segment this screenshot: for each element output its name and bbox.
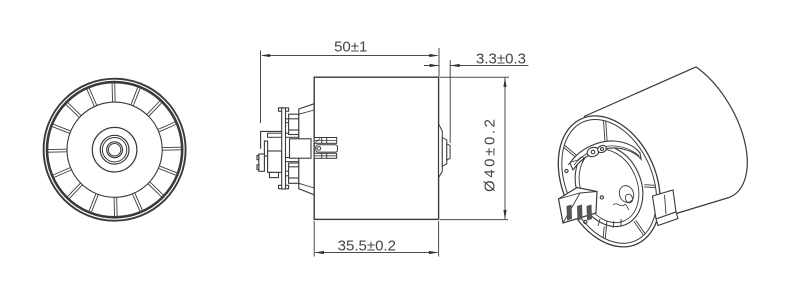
svg-text:Ø40±0.2: Ø40±0.2 — [481, 116, 498, 192]
svg-text:3.3±0.3: 3.3±0.3 — [476, 51, 526, 68]
svg-text:50±1: 50±1 — [334, 39, 367, 56]
svg-text:35.5±0.2: 35.5±0.2 — [338, 238, 396, 255]
